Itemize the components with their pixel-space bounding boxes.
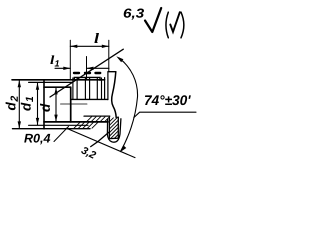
- label R0,4 with leader: [24, 127, 68, 145]
- small bore top: [71, 98, 108, 100]
- bore top: [44, 86, 71, 88]
- node general-roughness 6,3: [124, 8, 184, 38]
- collar left face: [107, 72, 109, 100]
- dimension d1: [21, 83, 39, 125]
- flange hatched bar: [110, 117, 119, 139]
- bore step wall: [70, 87, 72, 122]
- cone line lower: [67, 128, 136, 157]
- flange hook: [107, 119, 121, 142]
- bottom outer d2 line: [13, 128, 91, 130]
- dimension d: [40, 87, 58, 121]
- cone line upper: [50, 49, 123, 97]
- bore bottom: [44, 121, 108, 123]
- top outer surface d2: [12, 79, 105, 81]
- leader shelf for 74 deg: [134, 112, 196, 117]
- knurl root top line: [74, 77, 100, 80]
- rib flank lines: [72, 78, 74, 99]
- bottom d1 line: [29, 124, 88, 126]
- angle arc 74deg: [116, 56, 137, 152]
- dimension d2: [6, 80, 21, 128]
- section hatch lower wall: [74, 117, 110, 128]
- inner step line bottom: [84, 115, 110, 117]
- wavy break line: [112, 72, 117, 118]
- dimension l: [70, 33, 109, 80]
- part body outline: [12, 72, 121, 143]
- flange bar outline: [109, 117, 118, 138]
- collar top: [108, 71, 116, 73]
- rib crest segment 1: [74, 72, 79, 74]
- rib crest segment 3: [96, 72, 101, 74]
- roughness 3,2 on cone surface: [80, 132, 109, 161]
- rib crest segment 2: [85, 72, 90, 74]
- centerline: [61, 103, 88, 105]
- left face: [43, 80, 45, 129]
- knurl root line d1 top: [29, 81, 73, 83]
- label 74 deg: [145, 95, 191, 105]
- dimension l1: [50, 55, 109, 80]
